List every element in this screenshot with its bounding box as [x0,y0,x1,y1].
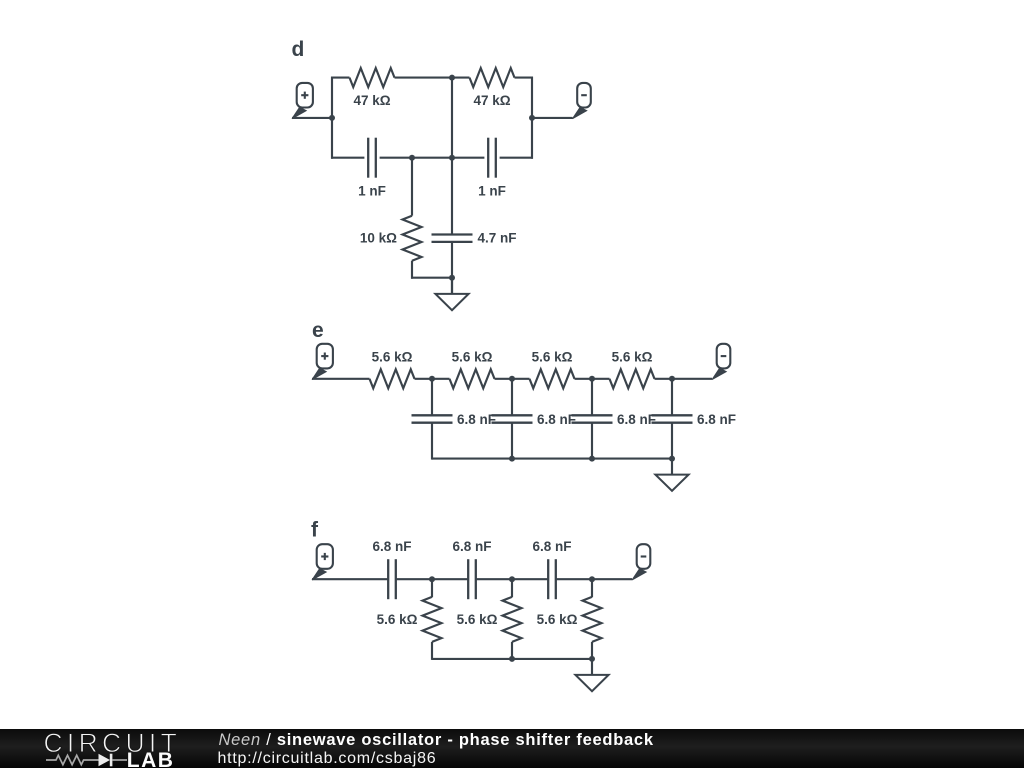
svg-text:5.6 kΩ: 5.6 kΩ [537,612,578,627]
svg-text:e: e [312,319,324,342]
wire resistor branch upper (f, 2) [511,579,513,597]
CircuitLab logo text CIRCUIT [44,728,182,758]
label 6.8 nF (f 3rd) [532,539,571,554]
svg-text:47 kΩ: 47 kΩ [473,93,510,108]
wire right rail vertical (d) [531,77,533,159]
label 5.6 kΩ (e 1st) [372,349,413,364]
resistor 47 kΩ (d, right) [470,68,515,87]
CircuitLab logo resistor-diode glyph [46,754,127,767]
wire resistor branch lower (f, 2) [511,642,513,660]
wire cap branch lower (e, 1) [431,423,433,460]
svg-text:10 kΩ: 10 kΩ [360,230,397,245]
resistor 5.6 kΩ (e, 4th) [610,369,655,388]
ground (circuit f) [575,659,608,691]
node junction 1 (e) [429,376,435,382]
label 6.8 nF (e 4) [697,412,736,427]
wire from right cap to right rail (d) [500,157,533,159]
label 5.6 kΩ (f 2) [457,612,498,627]
label 1 nF (d right) [478,184,506,199]
label 5.6 kΩ (f 1) [377,612,418,627]
wire segment (e, node1) [415,378,450,380]
resistor 5.6 kΩ (f, 2) [503,597,522,642]
CircuitLab logo text LAB [127,749,175,768]
label 4.7 nF (d) [478,230,517,245]
svg-text:6.8 nF: 6.8 nF [532,539,571,554]
node junction 2 (f) [509,576,515,582]
wire between cap and middle rail (d) [380,157,452,159]
svg-text:Neen / sinewave oscillator - p: Neen / sinewave oscillator - phase shift… [219,731,654,749]
wire middle rail vertical upper (d) [451,78,453,235]
wire lower-right segment (d) [452,157,484,159]
node junction bottom rail (e, 3) [589,456,595,462]
label d (circuit d) [292,38,305,61]
label 6.8 nF (f 1st) [372,539,411,554]
resistor 5.6 kΩ (f, 1) [423,597,442,642]
node junction bottom rail ground (f) [589,656,595,662]
wire cap branch upper (e, 1) [431,379,433,416]
svg-text:47 kΩ: 47 kΩ [353,93,390,108]
svg-text:d: d [292,38,305,61]
svg-text:6.8 nF: 6.8 nF [457,412,496,427]
label 5.6 kΩ (f 3) [537,612,578,627]
capacitor 1 nF (d, left) [368,138,376,178]
capacitor 6.8 nF (e, 4) [652,415,693,422]
wire segment (e, node3) [575,378,610,380]
wire bottom rail (e) [432,458,672,460]
svg-text:5.6 kΩ: 5.6 kΩ [372,349,413,364]
wire from right rail to - terminal (d) [532,117,573,119]
capacitor 1 nF (d, right) [488,138,496,178]
terminal + (circuit d input) [292,83,313,119]
ground (circuit d) [435,278,468,310]
node junction bottom rail ground (e) [669,456,675,462]
wire middle rail vertical lower (d) [451,242,453,294]
terminal + (circuit e input) [312,344,333,380]
label 47 kΩ (d right) [473,93,510,108]
label 5.6 kΩ (e 2nd) [452,349,493,364]
label 6.8 nF (e 2) [537,412,576,427]
wire resistor branch lower (f, 1) [431,642,433,660]
wire top-right segment (d) [515,77,534,79]
label 5.6 kΩ (e 3rd) [532,349,573,364]
svg-text:6.8 nF: 6.8 nF [372,539,411,554]
wire bottom rail (f) [432,658,592,660]
resistor 10 kΩ (d) [403,216,422,261]
wire 10k branch lower (d) [411,261,452,279]
svg-text:5.6 kΩ: 5.6 kΩ [457,612,498,627]
terminal - (circuit f output) [632,544,650,580]
wire input segment (f) [312,578,388,580]
label 6.8 nF (e 3) [617,412,656,427]
node junction ground (d) [449,275,455,281]
wire cap branch upper (e, 4) [671,379,673,416]
label 47 kΩ (d left) [353,93,390,108]
node junction 1 (f) [429,576,435,582]
wire output segment (f) [556,578,632,580]
node junction middle rail crossing (d) [449,155,455,161]
capacitor 6.8 nF (f, 1st) [388,559,396,599]
svg-text:5.6 kΩ: 5.6 kΩ [452,349,493,364]
terminal - (circuit d output) [573,83,591,119]
node junction 3 (e) [589,376,595,382]
wire cap branch lower (e, 3) [591,423,593,460]
label 1 nF (d left) [358,184,386,199]
wire cap branch lower (e, 4) [671,423,673,460]
svg-text:6.8 nF: 6.8 nF [537,412,576,427]
node junction at right rail (d) [529,115,535,121]
wire from + terminal to left rail (d) [292,117,332,119]
ground (circuit e) [655,459,688,491]
capacitor 6.8 nF (f, 2nd) [468,559,476,599]
node junction bottom rail (f, 2) [509,656,515,662]
node junction 2 (e) [509,376,515,382]
svg-text:f: f [311,519,319,542]
resistor 5.6 kΩ (e, 3rd) [530,369,575,388]
svg-text:4.7 nF: 4.7 nF [478,230,517,245]
capacitor 4.7 nF (d) [432,235,473,242]
node junction top of middle rail (d) [449,75,455,81]
svg-text:6.8 nF: 6.8 nF [617,412,656,427]
svg-text:LAB: LAB [127,749,175,768]
label 5.6 kΩ (e 4th) [612,349,653,364]
wire resistor branch upper (f, 3) [591,579,593,597]
svg-text:1 nF: 1 nF [358,184,386,199]
svg-text:http://circuitlab.com/csbaj86: http://circuitlab.com/csbaj86 [218,750,437,767]
wire resistor branch upper (f, 1) [431,579,433,597]
label f (circuit f) [311,519,319,542]
capacitor 6.8 nF (e, 3) [572,415,613,422]
label 6.8 nF (e 1) [457,412,496,427]
wire left rail vertical (d) [331,77,333,159]
wire segment (f, node1) [396,578,468,580]
label 6.8 nF (f 2nd) [452,539,491,554]
footer url http://circuitlab.com/csbaj86 [218,750,437,767]
wire 10k branch upper (d) [411,158,413,216]
svg-text:6.8 nF: 6.8 nF [452,539,491,554]
resistor 5.6 kΩ (f, 3) [583,597,602,642]
capacitor 6.8 nF (f, 3rd) [548,559,556,599]
capacitor 6.8 nF (e, 1) [412,415,453,422]
svg-text:6.8 nF: 6.8 nF [697,412,736,427]
wire top-left segment (d) [331,77,350,79]
wire lower-left segment (d) [331,157,364,159]
wire cap branch upper (e, 2) [511,379,513,416]
label 10 kΩ (d) [360,230,397,245]
svg-text:5.6 kΩ: 5.6 kΩ [532,349,573,364]
node junction 4 (e) [669,376,675,382]
wire segment (f, node2) [476,578,548,580]
node junction to 10k branch (d) [409,155,415,161]
wire input segment (e) [312,378,370,380]
svg-text:5.6 kΩ: 5.6 kΩ [612,349,653,364]
wire top-middle segment (d) [395,77,470,79]
node junction at left rail (d) [329,115,335,121]
resistor 5.6 kΩ (e, 1st) [370,369,415,388]
wire output segment (e) [655,378,713,380]
footer title: Neen / sinewave oscillator - phase shifter feedback [219,731,654,749]
capacitor 6.8 nF (e, 2) [492,415,533,422]
terminal + (circuit f input) [312,544,333,580]
wire cap branch lower (e, 2) [511,423,513,460]
svg-text:5.6 kΩ: 5.6 kΩ [377,612,418,627]
resistor 47 kΩ (d, left) [350,68,395,87]
svg-text:1 nF: 1 nF [478,184,506,199]
resistor 5.6 kΩ (e, 2nd) [450,369,495,388]
wire cap branch upper (e, 3) [591,379,593,416]
node junction bottom rail (e, 2) [509,456,515,462]
node junction 3 (f) [589,576,595,582]
terminal - (circuit e output) [712,344,730,380]
wire resistor branch lower (f, 3) [591,642,593,660]
label e (circuit e) [312,319,324,342]
wire segment (e, node2) [495,378,530,380]
footer bar background [0,729,1024,768]
